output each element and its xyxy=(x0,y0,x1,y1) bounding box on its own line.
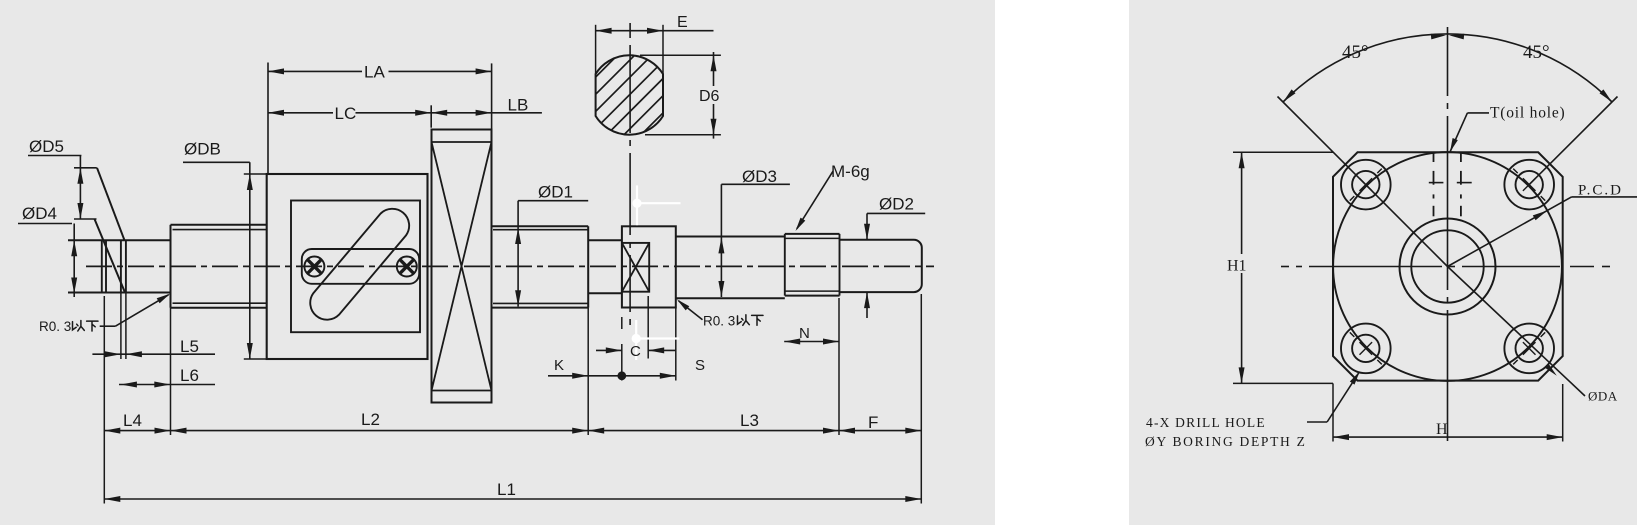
circlip groove cross diagonal 2 xyxy=(622,243,649,292)
45 degree diagonal through top-left hole xyxy=(1278,97,1448,267)
extension line groove2 right down xyxy=(647,296,649,359)
45 degree diagonal through top-right hole extension xyxy=(1529,97,1617,185)
nut body pitch circle xyxy=(1333,152,1562,381)
disk bottom cap line xyxy=(432,390,492,392)
right drawing panel background xyxy=(1129,0,1637,525)
D2 end journal outline with rounded end xyxy=(840,240,922,292)
mid shaft chamfer line bottom xyxy=(173,302,267,304)
extension line DB bottom xyxy=(244,358,267,360)
circlip groove box xyxy=(622,243,649,292)
oil hole hidden line left xyxy=(1433,153,1435,162)
svg-text:ØY BORING DEPTH Z: ØY BORING DEPTH Z xyxy=(1145,434,1307,449)
flange square outline with chamfered corners xyxy=(1333,152,1563,380)
wiper flange disk outline xyxy=(432,130,492,403)
circlip groove right wall (left journal) xyxy=(125,240,127,292)
D3 journal top edge xyxy=(676,236,785,238)
horizontal centerline of end view xyxy=(1281,266,1289,268)
extension line D5 top xyxy=(74,167,97,169)
svg-text:L2: L2 xyxy=(361,410,380,429)
disk cross diagonal 1 xyxy=(432,142,492,391)
journal before circlip top xyxy=(588,239,622,241)
vertical centerline of end view xyxy=(1447,27,1449,96)
extension line E left xyxy=(595,25,597,75)
dimension LB xyxy=(431,112,542,114)
circlip vertical centerline xyxy=(629,23,631,38)
ball return tube (oblong capsule) xyxy=(310,209,409,320)
ball nut body xyxy=(267,174,428,359)
dimension D1 vertical line xyxy=(517,201,519,307)
svg-text:D6: D6 xyxy=(699,88,720,105)
mid shaft section top edge xyxy=(171,224,267,226)
disk top cap line xyxy=(432,141,492,143)
center bore inner circle xyxy=(1411,230,1483,302)
leader R0.3 right xyxy=(679,301,703,320)
svg-text:LA: LA xyxy=(364,63,385,82)
arc end arrowhead right xyxy=(1600,89,1613,102)
screw head left xyxy=(304,257,324,277)
leader 4-X drill hole xyxy=(1307,421,1327,423)
drill hole bottom-left diagonal center tick xyxy=(1377,360,1382,365)
dimension D6 xyxy=(713,52,715,139)
svg-text:L6: L6 xyxy=(180,366,199,385)
D1 section top edge xyxy=(492,225,589,227)
svg-text:ØD2: ØD2 xyxy=(879,195,914,214)
dimension L5 xyxy=(92,353,215,355)
arc top arrowheads at vertical centerline xyxy=(1431,34,1446,40)
extension line shoulder down xyxy=(170,308,172,435)
dimension L1 xyxy=(104,498,921,500)
extension line shaft right end down to L1 xyxy=(920,294,922,504)
thread runout taper root line xyxy=(95,219,126,293)
extension line H right xyxy=(1562,384,1564,442)
hatching of detail section xyxy=(521,55,738,134)
white crosshair marker lower xyxy=(635,320,637,360)
extension line D6 bottom xyxy=(645,134,721,136)
left journal bottom edge xyxy=(68,292,171,294)
bottom dimension chain line L4 L2 L3 F xyxy=(104,430,921,432)
leader M-6g xyxy=(797,171,833,229)
svg-text:ØDB: ØDB xyxy=(184,140,221,159)
dimension DB vertical line xyxy=(249,162,251,359)
journal end face line 1 xyxy=(101,240,103,292)
drill hole bottom-left counterbore circle xyxy=(1352,335,1379,362)
drill hole top-right diagonal center tick xyxy=(1541,196,1546,201)
extension stub disk left face xyxy=(430,105,432,127)
circlip groove cross diagonal 1 xyxy=(622,243,649,292)
extension line D5 bottom xyxy=(74,218,97,220)
svg-text:ØD1: ØD1 xyxy=(538,183,573,202)
svg-text:45°: 45° xyxy=(1342,42,1369,63)
dimension E xyxy=(596,30,714,32)
svg-text:K: K xyxy=(554,357,564,374)
step face at end of D1 section xyxy=(587,226,589,307)
screw shaft centerline xyxy=(86,265,934,267)
kanji ika right xyxy=(738,315,764,326)
drill hole bottom-right outer circle xyxy=(1504,324,1554,374)
extension line shaft end down to L1 xyxy=(103,296,105,504)
thread end face xyxy=(839,234,841,296)
drill hole bottom-right cross mark xyxy=(1523,342,1536,355)
leader R0.3 left elbow xyxy=(100,325,116,327)
thread major bottom xyxy=(785,295,840,297)
dimension K with S shared origin dot xyxy=(548,375,676,377)
drill hole bottom-left cross mark xyxy=(1360,342,1373,355)
svg-text:L5: L5 xyxy=(180,337,199,356)
dimension LA xyxy=(268,70,362,72)
dimension C xyxy=(596,349,622,351)
svg-text:S: S xyxy=(695,357,705,374)
drill hole bottom-right counterbore circle xyxy=(1516,335,1543,362)
journal before circlip bottom xyxy=(588,292,622,294)
extension line groove left down xyxy=(120,293,122,360)
thread runout taper crest line xyxy=(97,168,125,241)
dimension L6 xyxy=(119,384,215,386)
svg-text:L1: L1 xyxy=(497,480,516,499)
D1 section bottom edge xyxy=(492,307,589,309)
circlip groove section detail shape xyxy=(596,55,663,134)
extension line groove right down xyxy=(125,293,127,360)
extension line DB top xyxy=(244,173,267,175)
extension line H left xyxy=(1332,383,1334,441)
oil hole tick left xyxy=(1429,182,1444,184)
angular dimension arc 45+45 xyxy=(1283,34,1612,102)
svg-text:L3: L3 xyxy=(740,411,759,430)
dimension D2 vertical line xyxy=(866,213,868,240)
thread start face xyxy=(784,234,786,296)
circlip groove left wall (left journal) xyxy=(120,240,122,292)
tube clamp plate xyxy=(302,249,419,284)
svg-text:LB: LB xyxy=(508,96,529,115)
ball nut mounting face plate xyxy=(291,201,420,333)
D1 section chamfer top xyxy=(493,229,588,231)
screw head right xyxy=(397,257,417,277)
dimension D3 vertical line xyxy=(720,184,722,297)
svg-text:M-6g: M-6g xyxy=(831,162,870,181)
extension line D1 step down xyxy=(587,308,589,435)
svg-text:N: N xyxy=(799,325,810,342)
svg-text:R0. 3: R0. 3 xyxy=(703,314,735,329)
kanji ika left xyxy=(73,321,99,332)
mid shaft chamfer line top xyxy=(173,229,267,231)
leader T oil hole xyxy=(1450,113,1467,152)
svg-text:H: H xyxy=(1436,421,1448,438)
svg-text:LC: LC xyxy=(335,104,357,123)
extension line H1 top xyxy=(1233,151,1333,153)
svg-text:ØD4: ØD4 xyxy=(22,204,57,223)
extension line E right xyxy=(662,25,664,75)
svg-text:ØD3: ØD3 xyxy=(742,167,777,186)
drill hole top-left outer circle xyxy=(1341,160,1391,210)
dimension H xyxy=(1333,436,1563,438)
arc end arrowhead left xyxy=(1283,89,1296,102)
svg-text:H1: H1 xyxy=(1227,258,1247,275)
drill hole top-right counterbore circle xyxy=(1516,171,1543,198)
mid shaft section bottom edge xyxy=(171,307,267,309)
extension line disk right face up xyxy=(491,63,493,129)
extension line collar right down xyxy=(675,308,677,381)
D3 journal bottom edge xyxy=(676,297,785,299)
svg-text:E: E xyxy=(677,14,688,31)
svg-text:L4: L4 xyxy=(123,411,142,430)
left journal top edge xyxy=(68,239,171,241)
D1 section chamfer bottom xyxy=(493,302,588,304)
disk cross diagonal 2 xyxy=(432,142,492,391)
svg-text:P.C.D: P.C.D xyxy=(1578,183,1623,199)
svg-text:F: F xyxy=(868,413,878,432)
journal end face line 2 xyxy=(105,240,107,292)
dimension H1 xyxy=(1241,152,1243,383)
svg-text:4-X DRILL HOLE: 4-X DRILL HOLE xyxy=(1146,415,1266,430)
oil hole hidden line right xyxy=(1460,153,1462,162)
svg-text:45°: 45° xyxy=(1523,42,1550,63)
dimension N xyxy=(784,341,839,343)
leader P.C.D xyxy=(1448,197,1572,267)
drill hole top-left counterbore circle xyxy=(1352,171,1379,198)
drill hole top-left cross mark xyxy=(1360,178,1373,191)
left drawing panel background xyxy=(0,0,995,525)
thread root bottom xyxy=(785,290,840,292)
svg-text:ØD5: ØD5 xyxy=(29,137,64,156)
extension line D6 top xyxy=(640,54,721,56)
dimension D4 vertical line xyxy=(73,224,75,298)
extension line H1 bottom xyxy=(1233,382,1333,384)
drill hole bottom-left outer circle xyxy=(1341,324,1391,374)
circlip collar block xyxy=(622,226,676,307)
extension line groove2 left down xyxy=(621,292,623,303)
dimension D5 vertical line xyxy=(79,156,81,220)
extension line nut left face up xyxy=(267,63,269,175)
drill hole top-right outer circle xyxy=(1504,160,1554,210)
dimension LC xyxy=(268,112,333,114)
drill hole top-left diagonal center tick xyxy=(1350,196,1355,201)
leader diameter DA through bottom-right hole xyxy=(1448,267,1586,397)
svg-text:R0. 3: R0. 3 xyxy=(39,319,71,334)
svg-text:T(oil hole): T(oil hole) xyxy=(1490,105,1566,122)
svg-text:C: C xyxy=(630,343,641,360)
white crosshair marker upper xyxy=(636,185,638,225)
thread major top xyxy=(785,233,840,235)
svg-text:ØDA: ØDA xyxy=(1588,389,1618,404)
shoulder step face at L4 end xyxy=(170,225,172,308)
drill hole top-right cross mark xyxy=(1523,178,1536,191)
extension line thread end down xyxy=(838,298,840,435)
oil hole tick right xyxy=(1457,182,1472,184)
drill hole bottom-right diagonal center tick xyxy=(1513,360,1518,365)
center bore outer circle xyxy=(1400,219,1496,315)
thread root top xyxy=(785,237,840,239)
